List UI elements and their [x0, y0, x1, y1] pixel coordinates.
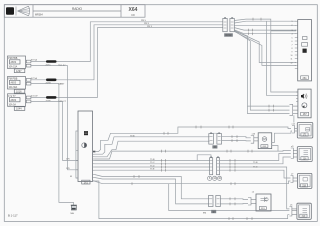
wire fuse3 lower	[31, 101, 78, 160]
R4 label box	[300, 214, 307, 218]
drop wire to amp pin2	[234, 32, 296, 66]
wire WB to C4	[95, 178, 210, 204]
svg-text:B 1-117: B 1-117	[8, 214, 18, 218]
drop wire to amp pin1	[234, 31, 296, 63]
R1 inner box	[299, 125, 311, 136]
C1 top nubs	[224, 17, 226, 18]
svg-text:PM PBB: PM PBB	[8, 57, 17, 60]
C3r1 ticks	[232, 135, 237, 138]
svg-text:A80S: A80S	[11, 61, 17, 64]
svg-text:75 B: 75 B	[253, 162, 258, 164]
C3 right wire 1	[222, 137, 251, 138]
bus wire F6	[95, 166, 210, 168]
R3 label box	[300, 184, 307, 188]
speaker box HP1	[298, 89, 311, 118]
F1 ticks	[164, 126, 233, 135]
wire fuse2 lower	[31, 84, 74, 205]
drop wire speaker B	[234, 31, 289, 110]
svg-text:A80S: A80S	[11, 82, 17, 85]
wire fuse1 lower to ground	[31, 66, 78, 170]
R2 inner box	[299, 148, 310, 159]
svg-text:261: 261	[84, 181, 89, 184]
C3 pins	[210, 137, 221, 141]
speaker A ticks	[269, 105, 274, 108]
drop wire speaker D	[271, 31, 298, 92]
fan-out wire C	[234, 24, 296, 26]
B3 stub	[251, 136, 258, 144]
fan-out wire A	[234, 19, 296, 31]
svg-text:x9: x9	[291, 146, 294, 148]
svg-text:12: 12	[291, 62, 293, 64]
C2 pins	[210, 161, 219, 171]
wire fuse1 upper	[31, 22, 223, 62]
speaker wire3	[248, 106, 290, 114]
radio unit U1	[298, 20, 312, 81]
wire WC long to R3	[93, 181, 291, 184]
box R4	[297, 203, 311, 219]
svg-text:2: 2	[292, 25, 293, 27]
C1 label box	[224, 33, 233, 37]
R2 label box	[301, 157, 308, 161]
svg-text:PM PBB: PM PBB	[8, 78, 17, 81]
svg-text:x23: x23	[252, 134, 256, 136]
fan-out wire D	[234, 28, 296, 31]
speaker B ticks	[269, 109, 274, 112]
drop wire speaker A	[234, 31, 289, 106]
R3 inner box	[299, 175, 310, 187]
wire F3b to R2	[95, 151, 291, 160]
fuse box F3	[8, 94, 26, 111]
relay connector C3	[209, 134, 222, 145]
C2r4 ticks	[230, 169, 235, 172]
motor box B3	[258, 133, 272, 149]
svg-text:PR 5: PR 5	[141, 20, 147, 22]
svg-text:R: R	[214, 146, 216, 149]
U2 label box	[82, 180, 90, 184]
bus ticks	[162, 159, 166, 172]
svg-text:187: 187	[303, 113, 308, 116]
C2 right wire 2	[220, 157, 291, 164]
wire line3 to R4	[169, 184, 290, 211]
fuse box F2	[8, 77, 26, 94]
wire WA to C4	[95, 175, 210, 199]
U2 right pin stubs	[93, 154, 95, 177]
B3 icon	[262, 137, 267, 142]
svg-text:8: 8	[292, 48, 293, 50]
R3 stub	[291, 176, 298, 183]
svg-text:11: 11	[291, 58, 293, 60]
U1 icon 2	[302, 43, 308, 47]
svg-text:1016: 1016	[16, 90, 22, 93]
svg-text:x7: x7	[291, 174, 294, 176]
svg-text:4: 4	[292, 34, 293, 36]
U2 ring icon	[82, 143, 87, 148]
svg-text:A80S: A80S	[11, 99, 17, 102]
WC ticks	[132, 182, 235, 185]
svg-text:PR 3: PR 3	[147, 26, 153, 28]
svg-text:8M: 8M	[203, 213, 206, 215]
R3 icon	[303, 178, 308, 182]
svg-text:1297: 1297	[16, 70, 22, 73]
connector stub F2	[26, 79, 31, 86]
C2r1 ticks	[230, 159, 235, 162]
R2 icon	[304, 151, 309, 155]
C2r3 ticks	[230, 166, 235, 169]
svg-text:3: 3	[292, 30, 293, 32]
wire E ticks	[249, 32, 253, 35]
svg-text:75 B: 75 B	[150, 159, 155, 161]
C4 pins	[209, 199, 219, 204]
FB ticks	[229, 217, 252, 220]
svg-text:9: 9	[292, 51, 293, 53]
svg-text:75 D: 75 D	[253, 167, 258, 169]
U1 label box	[301, 76, 309, 80]
C4 label box	[211, 210, 216, 214]
HP1 ring dot	[303, 105, 305, 107]
C2 right wire 1	[220, 154, 291, 161]
C3 label box	[212, 145, 217, 149]
drop wire speaker C	[266, 21, 298, 95]
svg-text:261: 261	[303, 77, 308, 80]
svg-text:377-A: 377-A	[31, 77, 37, 80]
wire F2 to relay	[95, 137, 210, 154]
C1 pins	[224, 22, 234, 28]
C2 top nubs	[210, 157, 212, 158]
svg-text:472-W: 472-W	[31, 96, 38, 98]
F3b ticks	[162, 150, 253, 153]
svg-text:5: 5	[292, 37, 293, 39]
C4r2 ticks	[230, 203, 235, 206]
C3 top bridge	[212, 132, 218, 134]
box R3	[298, 173, 312, 188]
motor box B5	[256, 194, 271, 211]
WA ticks	[134, 175, 139, 178]
B5 stub	[248, 198, 256, 206]
svg-text:1: 1	[292, 21, 293, 23]
wire fuse3 upper	[31, 28, 223, 98]
svg-text:CO: CO	[131, 14, 135, 17]
svg-text:PR 9: PR 9	[144, 23, 150, 25]
B3 to R1 wire	[272, 131, 292, 143]
HP1 ring icon	[302, 103, 307, 108]
svg-text:6: 6	[292, 41, 293, 43]
svg-text:X64: X64	[129, 7, 138, 13]
splice S1	[46, 60, 57, 63]
wire fuse2 upper	[31, 25, 223, 80]
svg-text:R212: R212	[226, 34, 232, 37]
HP1 pin ticks	[296, 92, 298, 102]
wire A ticks	[253, 18, 261, 21]
svg-text:977-A: 977-A	[31, 59, 37, 62]
wire D ticks	[249, 29, 253, 32]
svg-text:75 C: 75 C	[150, 162, 155, 164]
U2 right pin dot	[93, 151, 95, 153]
B3 to R2 branch	[272, 146, 278, 152]
svg-text:207A: 207A	[46, 99, 52, 102]
svg-text:MR364: MR364	[35, 14, 43, 17]
svg-text:10A 5A: 10A 5A	[9, 104, 17, 107]
U1 icon 3 dark	[303, 49, 307, 53]
B5 icon	[261, 197, 269, 202]
C2 right wire 3	[220, 167, 290, 209]
logo mark	[6, 6, 30, 16]
connector stub F3	[26, 96, 31, 103]
B3 label box	[261, 145, 268, 149]
R1 label box	[301, 133, 308, 137]
C2 right wire 4	[220, 170, 291, 178]
U2 icon	[84, 131, 88, 135]
splice S2	[46, 79, 57, 82]
wire F1 route to R1	[96, 127, 291, 152]
U1 icon 1	[303, 37, 308, 40]
svg-text:RADIO: RADIO	[72, 7, 83, 11]
bus wire F5	[95, 163, 210, 165]
stub drop to R1	[293, 115, 295, 122]
R4 inner box	[299, 205, 310, 218]
U2 left pins	[76, 151, 78, 179]
fan-out wire B	[234, 21, 296, 23]
svg-text:10A 15A: 10A 15A	[9, 66, 18, 69]
svg-text:x12: x12	[292, 123, 296, 125]
U1 pins	[295, 21, 298, 68]
HP1 speaker icon	[301, 94, 307, 99]
C3 top nubs	[210, 133, 212, 134]
connector stub F1	[26, 60, 31, 67]
wire F3 to relay	[95, 141, 210, 157]
U1 pin numbers	[291, 21, 293, 64]
main unit U2	[78, 111, 93, 182]
R1 icon	[306, 128, 310, 132]
svg-text:10A 30A: 10A 30A	[9, 86, 18, 89]
svg-text:R: R	[213, 211, 215, 214]
middle connector C2	[210, 158, 220, 175]
bus wire F7	[95, 169, 210, 171]
R4 icon	[303, 208, 308, 212]
box R1	[297, 123, 313, 139]
fuse box F1	[8, 56, 26, 73]
splice S3	[46, 96, 57, 99]
C3 right wire 2	[222, 140, 251, 142]
HP1 stub bracket	[290, 104, 298, 115]
C2 circled ids	[208, 176, 222, 180]
C4r1 ticks	[230, 197, 235, 200]
R1 stub	[292, 126, 297, 134]
svg-text:10: 10	[291, 55, 293, 57]
svg-text:1044: 1044	[16, 108, 22, 111]
C4 right wire 2	[221, 203, 249, 205]
svg-text:M: M	[70, 176, 72, 178]
C4 right wire 1	[221, 198, 249, 201]
title block	[4, 5, 145, 18]
C2r2 ticks	[230, 162, 235, 165]
svg-text:MH: MH	[71, 213, 75, 215]
lower connector C4	[209, 196, 221, 207]
svg-text:x5: x5	[290, 205, 293, 207]
svg-text:x2: x2	[252, 192, 255, 194]
R4 stub	[289, 207, 297, 217]
connector C1 columns	[223, 18, 234, 31]
wire C2 top hook	[197, 155, 211, 161]
svg-text:7: 7	[292, 44, 293, 46]
U2 left loop wire	[76, 131, 78, 178]
bus wire F4	[95, 160, 210, 162]
svg-text:75 E: 75 E	[150, 169, 155, 171]
ground M1	[71, 205, 77, 210]
C3r2 ticks	[232, 139, 237, 142]
B5 label box	[259, 207, 266, 211]
fan-out wire E	[234, 30, 296, 34]
box R2	[297, 147, 312, 162]
svg-text:75 D: 75 D	[150, 165, 155, 167]
svg-text:F S TY: F S TY	[8, 95, 16, 98]
bottom wire FB	[93, 181, 290, 219]
HP1 label box	[301, 112, 309, 116]
R2 stub	[291, 148, 298, 159]
